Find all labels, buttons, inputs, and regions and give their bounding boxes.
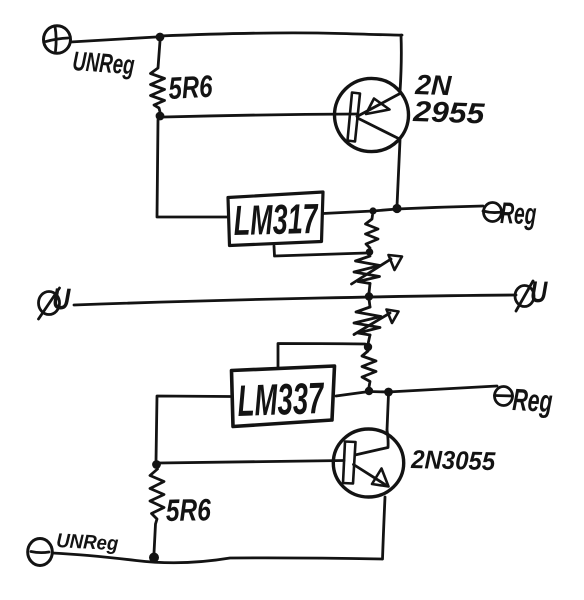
wire Q2 emitter down to rail: [383, 497, 386, 559]
potentiometer P1: [352, 255, 403, 284]
wire LM337 output / -Reg line: [336, 386, 497, 396]
svg-text:U: U: [530, 276, 549, 309]
wire Q1 base: [164, 114, 357, 117]
node junction top rail / R1: [156, 33, 165, 42]
node bottom rail: [149, 553, 159, 563]
node Q1 collector junction: [392, 204, 401, 213]
node below R1: [156, 112, 165, 121]
terminal -UNReg (negative input): [28, 539, 53, 566]
wire top rail left: [71, 37, 157, 42]
resistor R2: [366, 215, 379, 248]
wire LM317 adj: [274, 246, 366, 256]
svg-text:UNReg: UNReg: [72, 46, 136, 80]
wire P2 to node: [368, 335, 370, 344]
transistor Q2 2N3055: [333, 429, 403, 497]
transistor Q1 2N2955: [335, 78, 409, 151]
node R2 / P1 / adj: [366, 248, 374, 256]
wire Q2 collector up wire: [387, 394, 389, 430]
label 0V (left): [39, 283, 72, 319]
label +Reg output: [483, 197, 537, 231]
terminal +UNReg (positive input): [44, 26, 71, 54]
svg-text:LM317: LM317: [233, 195, 319, 244]
wire bottom rail: [53, 553, 383, 563]
node LM317 output / R2: [369, 207, 376, 214]
node base / R3 junction: [152, 460, 161, 469]
svg-text:Reg: Reg: [512, 382, 554, 419]
wire R1 node down and to LM317 input: [157, 120, 228, 217]
node P2 / R4 / adj337: [364, 343, 372, 351]
svg-text:5R6: 5R6: [166, 492, 212, 528]
svg-text:2N3055: 2N3055: [410, 444, 496, 476]
svg-text:U: U: [52, 283, 72, 316]
node 0V junction: [365, 292, 373, 300]
svg-text:2955: 2955: [412, 96, 486, 131]
wire LM337 adj: [278, 344, 365, 369]
potentiometer P2: [354, 307, 399, 335]
resistor R4: [362, 351, 376, 387]
wire 0V rail: [74, 295, 516, 305]
wire P1 to 0V node: [369, 284, 370, 294]
node R4 / -reg line: [365, 387, 373, 395]
resistor R3 5R6 (bottom): [150, 469, 164, 553]
wire top rail right and corner down to Q1 emitter: [160, 33, 402, 92]
label 0V (right): [515, 276, 548, 311]
regulator U2 LM337 box: [232, 366, 335, 427]
node Q2 collector junction: [384, 388, 393, 397]
svg-text:LM337: LM337: [237, 374, 326, 426]
regulator U1 LM317 box: [228, 192, 323, 246]
wire LM317 output to +Reg: [323, 206, 483, 214]
wire 0V to P2: [369, 299, 370, 307]
wire LM337 input: [156, 396, 230, 461]
svg-text:5R6: 5R6: [168, 69, 214, 106]
svg-text:UNReg: UNReg: [56, 530, 119, 555]
label -Reg output: [495, 382, 554, 419]
wire Q2 base: [159, 461, 344, 464]
svg-text:Reg: Reg: [500, 197, 537, 231]
wire Q1 collector down to node: [397, 140, 400, 206]
resistor R1 5R6 (top): [151, 41, 165, 112]
